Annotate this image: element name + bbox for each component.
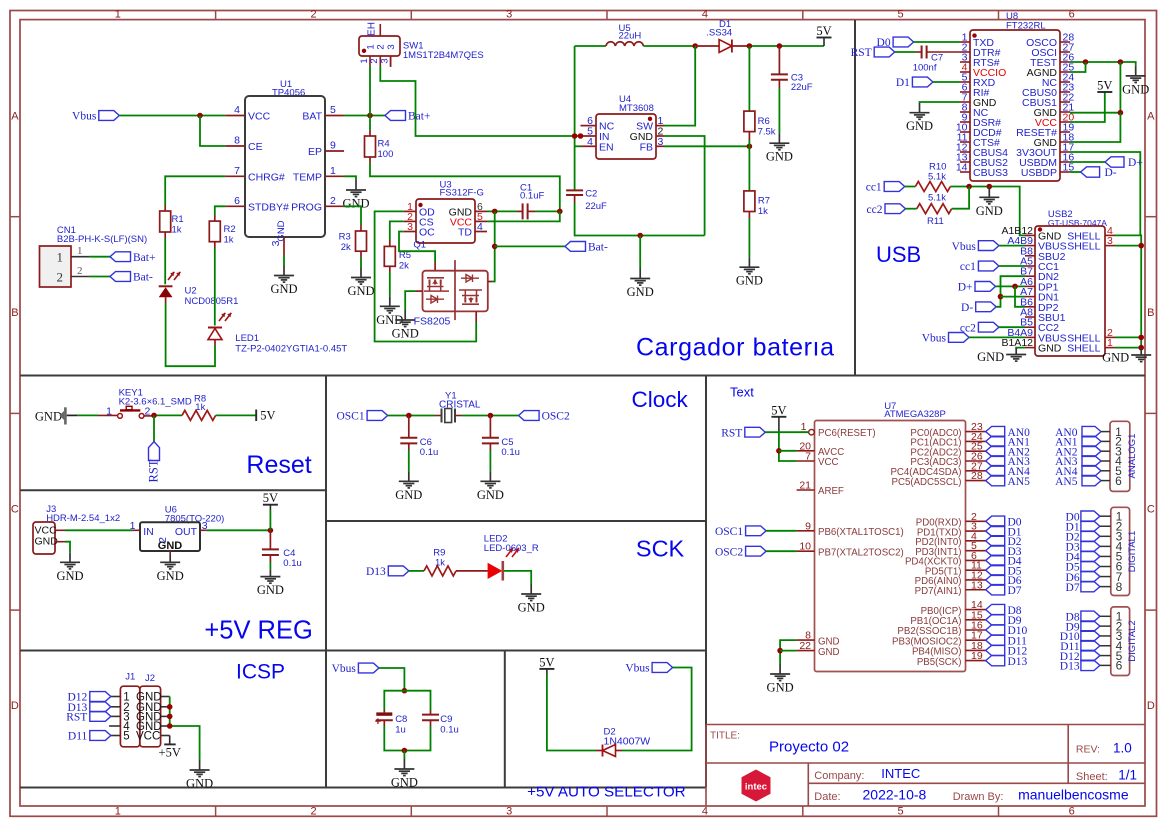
svg-text:PC5(ADC5SCL): PC5(ADC5SCL) bbox=[892, 477, 962, 488]
svg-text:EN: EN bbox=[599, 141, 614, 153]
svg-text:Drawn By:: Drawn By: bbox=[953, 791, 1004, 803]
svg-text:Bat-: Bat- bbox=[588, 242, 608, 254]
svg-text:CBUS3: CBUS3 bbox=[973, 167, 1008, 179]
svg-text:4: 4 bbox=[477, 221, 483, 233]
svg-text:cc1: cc1 bbox=[866, 182, 882, 194]
svg-text:.SS34: .SS34 bbox=[706, 27, 732, 38]
svg-text:GND: GND bbox=[766, 150, 793, 164]
svg-text:7: 7 bbox=[805, 451, 811, 463]
svg-text:13: 13 bbox=[971, 579, 983, 591]
svg-text:5: 5 bbox=[123, 731, 129, 743]
svg-text:3: 3 bbox=[407, 221, 413, 233]
svg-text:2k: 2k bbox=[399, 261, 409, 272]
svg-text:VCC: VCC bbox=[248, 111, 271, 123]
svg-text:GND: GND bbox=[627, 285, 654, 299]
svg-text:7: 7 bbox=[234, 165, 240, 177]
svg-text:R4: R4 bbox=[378, 139, 390, 150]
svg-text:Q1: Q1 bbox=[413, 240, 426, 251]
svg-text:B2B-PH-K-S(LF)(SN): B2B-PH-K-S(LF)(SN) bbox=[57, 234, 147, 245]
svg-text:GND: GND bbox=[818, 636, 840, 647]
svg-text:GND: GND bbox=[818, 647, 840, 658]
svg-text:GND: GND bbox=[391, 776, 418, 790]
svg-text:PB7(XTAL2TOSC2): PB7(XTAL2TOSC2) bbox=[818, 547, 904, 558]
svg-text:GND: GND bbox=[257, 583, 284, 597]
svg-text:19: 19 bbox=[971, 650, 983, 662]
svg-text:GND: GND bbox=[392, 327, 419, 341]
svg-text:0.1u: 0.1u bbox=[440, 725, 459, 736]
svg-text:GND: GND bbox=[976, 204, 1003, 218]
svg-text:B: B bbox=[11, 307, 18, 319]
svg-text:Date:: Date: bbox=[814, 791, 840, 803]
svg-text:AREF: AREF bbox=[818, 486, 844, 497]
svg-text:3: 3 bbox=[379, 58, 390, 63]
svg-text:GND: GND bbox=[347, 284, 374, 298]
svg-text:100nf: 100nf bbox=[913, 63, 937, 74]
svg-text:C: C bbox=[11, 504, 19, 516]
svg-text:FS312F-G: FS312F-G bbox=[440, 187, 484, 198]
svg-text:manuelbencosme: manuelbencosme bbox=[1018, 787, 1129, 803]
svg-text:9: 9 bbox=[805, 520, 811, 532]
svg-text:8: 8 bbox=[1116, 580, 1123, 594]
svg-text:3: 3 bbox=[506, 9, 512, 21]
svg-text:0.1u: 0.1u bbox=[283, 558, 302, 569]
svg-text:J2: J2 bbox=[145, 673, 155, 684]
svg-text:TZ-P2-0402YGTIA1-0.45T: TZ-P2-0402YGTIA1-0.45T bbox=[235, 344, 347, 355]
svg-text:TITLE:: TITLE: bbox=[710, 731, 740, 742]
svg-text:2: 2 bbox=[330, 195, 336, 207]
svg-text:OSC1: OSC1 bbox=[336, 411, 364, 423]
svg-text:RST: RST bbox=[147, 459, 161, 482]
svg-text:GND: GND bbox=[186, 777, 213, 791]
svg-text:GND: GND bbox=[35, 536, 59, 548]
svg-text:+5V AUTO SELECTOR: +5V AUTO SELECTOR bbox=[527, 784, 686, 801]
svg-text:7.5k: 7.5k bbox=[758, 127, 776, 138]
svg-text:cc2: cc2 bbox=[867, 204, 883, 216]
svg-text:D-: D- bbox=[961, 302, 973, 314]
svg-text:RST: RST bbox=[851, 47, 872, 59]
svg-text:GND: GND bbox=[395, 488, 422, 502]
svg-text:cc1: cc1 bbox=[960, 261, 976, 273]
svg-text:DIGITAL2: DIGITAL2 bbox=[1127, 620, 1138, 662]
svg-text:CE: CE bbox=[248, 141, 263, 153]
svg-text:R11: R11 bbox=[927, 216, 944, 227]
svg-text:C: C bbox=[1147, 504, 1155, 516]
svg-text:D11: D11 bbox=[68, 731, 88, 743]
svg-text:3: 3 bbox=[386, 44, 397, 49]
svg-text:0.1u: 0.1u bbox=[420, 447, 439, 458]
svg-text:+5V REG: +5V REG bbox=[204, 617, 312, 645]
svg-text:OSC2: OSC2 bbox=[715, 546, 743, 558]
svg-text:1N4007W: 1N4007W bbox=[604, 736, 651, 748]
svg-text:EH: EH bbox=[367, 22, 378, 36]
svg-text:OC: OC bbox=[419, 227, 435, 239]
svg-text:3: 3 bbox=[202, 520, 208, 532]
svg-text:STDBY#: STDBY# bbox=[248, 201, 289, 213]
svg-text:GND: GND bbox=[767, 681, 794, 695]
svg-text:A: A bbox=[1147, 111, 1155, 123]
svg-text:LED-0603_R: LED-0603_R bbox=[484, 543, 539, 554]
svg-text:GND: GND bbox=[35, 410, 62, 424]
svg-text:GND: GND bbox=[276, 220, 287, 241]
svg-text:A: A bbox=[11, 111, 19, 123]
svg-text:1: 1 bbox=[1107, 337, 1113, 349]
svg-text:intec: intec bbox=[745, 782, 767, 793]
svg-text:C8: C8 bbox=[395, 714, 407, 725]
svg-text:5V: 5V bbox=[816, 24, 831, 38]
svg-text:AN5: AN5 bbox=[1008, 476, 1031, 488]
svg-text:SHELL: SHELL bbox=[1067, 343, 1100, 355]
svg-text:5.1k: 5.1k bbox=[928, 172, 946, 183]
svg-text:ANALOG1: ANALOG1 bbox=[1127, 434, 1138, 479]
svg-text:1: 1 bbox=[57, 250, 64, 265]
svg-text:3: 3 bbox=[270, 240, 282, 246]
svg-text:R3: R3 bbox=[339, 232, 351, 243]
svg-text:R6: R6 bbox=[758, 116, 770, 127]
svg-text:5.1k: 5.1k bbox=[928, 193, 946, 204]
svg-text:Text: Text bbox=[730, 385, 754, 400]
svg-text:C2: C2 bbox=[585, 189, 597, 200]
svg-text:USBDP: USBDP bbox=[1021, 167, 1057, 179]
svg-text:2: 2 bbox=[157, 537, 169, 543]
svg-text:GND: GND bbox=[56, 569, 83, 583]
svg-text:D: D bbox=[1147, 700, 1155, 712]
svg-text:1: 1 bbox=[115, 9, 121, 21]
svg-text:1: 1 bbox=[330, 165, 336, 177]
svg-text:ICSP: ICSP bbox=[236, 661, 285, 684]
svg-text:Company:: Company: bbox=[814, 770, 864, 782]
svg-text:3: 3 bbox=[506, 806, 512, 818]
svg-text:0.1uF: 0.1uF bbox=[520, 191, 544, 202]
svg-text:2: 2 bbox=[57, 270, 64, 285]
svg-text:B: B bbox=[1147, 307, 1154, 319]
svg-text:CHRG#: CHRG# bbox=[248, 171, 285, 183]
svg-text:+: + bbox=[375, 716, 381, 728]
svg-text:J1: J1 bbox=[125, 672, 135, 683]
svg-text:PD7(AIN1): PD7(AIN1) bbox=[915, 586, 962, 597]
svg-text:Proyecto 02: Proyecto 02 bbox=[769, 739, 849, 756]
svg-text:D13: D13 bbox=[1008, 656, 1028, 668]
svg-text:U2: U2 bbox=[185, 286, 197, 297]
svg-text:Reset: Reset bbox=[246, 451, 311, 479]
svg-text:VCC: VCC bbox=[818, 457, 838, 468]
svg-text:4: 4 bbox=[702, 806, 708, 818]
svg-text:SHELL: SHELL bbox=[1067, 241, 1100, 253]
svg-text:GND: GND bbox=[157, 569, 184, 583]
svg-text:Cargador baterıa: Cargador baterıa bbox=[636, 334, 835, 362]
svg-text:OSC2: OSC2 bbox=[542, 411, 570, 423]
svg-text:5V: 5V bbox=[771, 403, 786, 417]
svg-text:1k: 1k bbox=[224, 235, 234, 246]
svg-text:2k: 2k bbox=[341, 242, 351, 253]
svg-text:1: 1 bbox=[77, 245, 83, 257]
svg-text:4: 4 bbox=[234, 104, 240, 116]
svg-text:PROG: PROG bbox=[291, 201, 322, 213]
svg-text:10: 10 bbox=[799, 541, 811, 553]
svg-text:D+: D+ bbox=[958, 282, 973, 294]
svg-text:FB: FB bbox=[640, 141, 653, 153]
svg-text:6: 6 bbox=[1069, 806, 1075, 818]
svg-text:Bat+: Bat+ bbox=[408, 111, 430, 123]
svg-text:5V: 5V bbox=[260, 408, 275, 422]
svg-text:6: 6 bbox=[234, 195, 240, 207]
svg-text:5: 5 bbox=[330, 104, 336, 116]
svg-text:GND: GND bbox=[1122, 82, 1149, 96]
svg-text:SCK: SCK bbox=[636, 535, 685, 561]
svg-text:TD: TD bbox=[458, 227, 472, 239]
svg-text:RST: RST bbox=[66, 712, 87, 724]
svg-text:TEMP: TEMP bbox=[293, 171, 322, 183]
svg-text:EP: EP bbox=[308, 146, 322, 158]
svg-text:GND: GND bbox=[270, 282, 297, 296]
svg-text:VCC: VCC bbox=[136, 731, 160, 743]
svg-text:GND: GND bbox=[1102, 351, 1129, 365]
svg-text:3: 3 bbox=[1107, 235, 1113, 247]
svg-text:6: 6 bbox=[1116, 659, 1123, 673]
svg-text:GND: GND bbox=[977, 350, 1004, 364]
svg-text:1.0: 1.0 bbox=[1113, 741, 1132, 756]
svg-text:GND: GND bbox=[342, 197, 369, 211]
svg-text:PC6(RESET): PC6(RESET) bbox=[818, 428, 876, 439]
svg-text:D-: D- bbox=[1105, 167, 1117, 179]
svg-text:5: 5 bbox=[898, 806, 904, 818]
svg-text:1MS1T2B4M7QES: 1MS1T2B4M7QES bbox=[403, 50, 484, 61]
svg-text:5V: 5V bbox=[263, 491, 278, 505]
svg-text:5: 5 bbox=[898, 9, 904, 21]
svg-text:1: 1 bbox=[115, 806, 121, 818]
svg-text:DIGITAL1: DIGITAL1 bbox=[1127, 531, 1138, 573]
svg-text:1u: 1u bbox=[395, 725, 406, 736]
svg-text:R1: R1 bbox=[172, 214, 184, 225]
svg-text:1: 1 bbox=[801, 421, 807, 433]
svg-text:22uF: 22uF bbox=[585, 201, 607, 212]
svg-text:1k: 1k bbox=[435, 558, 445, 569]
svg-text:9: 9 bbox=[330, 140, 336, 152]
svg-text:2: 2 bbox=[77, 265, 83, 277]
svg-text:MT3608: MT3608 bbox=[619, 103, 654, 114]
svg-text:RST: RST bbox=[721, 427, 742, 439]
svg-text:5V: 5V bbox=[1097, 79, 1112, 93]
svg-text:GND: GND bbox=[518, 601, 545, 615]
svg-text:FS8205: FS8205 bbox=[414, 316, 451, 328]
svg-text:100: 100 bbox=[378, 149, 394, 160]
svg-text:14: 14 bbox=[956, 162, 968, 174]
svg-text:D13: D13 bbox=[1060, 661, 1080, 673]
svg-text:C9: C9 bbox=[440, 714, 452, 725]
svg-text:ATMEGA328P: ATMEGA328P bbox=[884, 409, 946, 420]
svg-text:CRISTAL: CRISTAL bbox=[439, 400, 481, 411]
svg-text:GND: GND bbox=[1038, 343, 1062, 355]
svg-text:1/1: 1/1 bbox=[1118, 768, 1137, 783]
svg-text:Sheet:: Sheet: bbox=[1076, 771, 1108, 783]
svg-text:8: 8 bbox=[234, 135, 240, 147]
svg-text:6: 6 bbox=[1115, 474, 1122, 488]
svg-text:1: 1 bbox=[130, 520, 136, 532]
svg-text:+5V: +5V bbox=[159, 746, 181, 760]
svg-text:OSC1: OSC1 bbox=[715, 526, 743, 538]
svg-text:1: 1 bbox=[106, 406, 112, 418]
svg-text:Vbus: Vbus bbox=[332, 663, 357, 675]
svg-text:0.1u: 0.1u bbox=[501, 447, 520, 458]
svg-text:Bat+: Bat+ bbox=[133, 252, 155, 264]
svg-text:R7: R7 bbox=[758, 196, 770, 207]
svg-text:Vbus: Vbus bbox=[72, 111, 97, 123]
svg-text:LED1: LED1 bbox=[235, 333, 259, 344]
svg-text:GND: GND bbox=[477, 488, 504, 502]
svg-text:1k: 1k bbox=[172, 225, 182, 236]
svg-text:D7: D7 bbox=[1008, 585, 1022, 597]
svg-text:5V: 5V bbox=[539, 655, 554, 669]
svg-text:Vbus: Vbus bbox=[922, 333, 947, 345]
svg-text:R2: R2 bbox=[224, 224, 236, 235]
svg-text:21: 21 bbox=[799, 480, 811, 492]
svg-text:D: D bbox=[11, 700, 19, 712]
svg-text:22uF: 22uF bbox=[791, 82, 813, 93]
svg-text:Bat-: Bat- bbox=[133, 272, 153, 284]
svg-text:3: 3 bbox=[658, 136, 664, 148]
svg-text:Vbus: Vbus bbox=[625, 663, 650, 675]
svg-text:6: 6 bbox=[1069, 9, 1075, 21]
svg-text:BAT: BAT bbox=[302, 111, 322, 123]
svg-text:PB5(SCK): PB5(SCK) bbox=[917, 657, 962, 668]
svg-text:D13: D13 bbox=[366, 566, 386, 578]
svg-text:IN: IN bbox=[143, 526, 154, 538]
svg-text:D+: D+ bbox=[1128, 157, 1143, 169]
svg-text:D7: D7 bbox=[1066, 582, 1080, 594]
svg-text:HDR-M-2.54_1x2: HDR-M-2.54_1x2 bbox=[46, 513, 120, 524]
svg-text:Clock: Clock bbox=[632, 387, 689, 412]
svg-text:22uH: 22uH bbox=[619, 31, 642, 42]
svg-text:4: 4 bbox=[587, 136, 593, 148]
svg-text:USB: USB bbox=[876, 242, 921, 267]
svg-text:INTEC: INTEC bbox=[881, 766, 920, 781]
svg-text:2022-10-8: 2022-10-8 bbox=[863, 787, 927, 803]
svg-text:2: 2 bbox=[310, 806, 316, 818]
svg-text:AN5: AN5 bbox=[1055, 476, 1078, 488]
svg-text:2: 2 bbox=[310, 9, 316, 21]
svg-text:PB6(XTAL1TOSC1): PB6(XTAL1TOSC1) bbox=[818, 527, 904, 538]
svg-text:D1: D1 bbox=[896, 77, 910, 89]
svg-text:4: 4 bbox=[702, 9, 708, 21]
svg-text:Vbus: Vbus bbox=[952, 241, 977, 253]
svg-text:GND: GND bbox=[736, 274, 763, 288]
svg-text:GND: GND bbox=[906, 119, 933, 133]
svg-text:REV:: REV: bbox=[1076, 744, 1100, 756]
svg-text:NCD0805R1: NCD0805R1 bbox=[185, 296, 239, 307]
svg-text:OUT: OUT bbox=[175, 526, 198, 538]
svg-text:28: 28 bbox=[971, 470, 983, 482]
svg-text:22: 22 bbox=[799, 640, 811, 652]
svg-text:1k: 1k bbox=[758, 206, 768, 217]
